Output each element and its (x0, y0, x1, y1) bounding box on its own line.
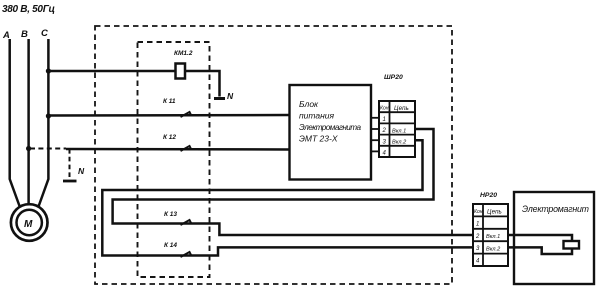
svg-text:N: N (227, 91, 234, 101)
svg-text:Вкл.2: Вкл.2 (392, 140, 407, 146)
svg-text:К 11: К 11 (163, 98, 176, 105)
wire: stub unit to connector pin 4 (371, 150, 379, 152)
svg-text:питания: питания (299, 111, 335, 121)
svg-text:КМ1.2: КМ1.2 (174, 50, 193, 57)
node: junction dot on phase B (neutral/K12 row) (26, 146, 31, 151)
svg-text:ШР20: ШР20 (384, 74, 403, 81)
wire: coil KM1.2 to terminal N (185, 71, 220, 97)
contact K12 (contactor contact) (163, 134, 191, 151)
contact K11 (contactor contact) (163, 98, 191, 117)
electromagnet unit box (514, 192, 594, 284)
wire: phase C down to motor (39, 39, 49, 206)
svg-text:К 14: К 14 (164, 242, 177, 249)
svg-text:380 В, 50Гц: 380 В, 50Гц (2, 4, 55, 15)
wire: phase C to coil KM1.2 (48, 70, 175, 73)
coil KM1.2 (contactor coil) (174, 50, 193, 79)
wire: circuit Vkl.2 from ShR20 pin3 through contact K14 to NR20 pin3 (102, 140, 473, 255)
svg-text:2: 2 (475, 234, 480, 240)
wire: electromagnet coil loop (508, 235, 572, 254)
enclosure: outer dashed boundary (cabinet) (95, 26, 452, 284)
motor M (asynchronous motor) (11, 204, 48, 241)
node: junction dot on phase C (row KM1 coil) (46, 68, 51, 73)
wire: dashed tap from phase B junction (30, 148, 66, 150)
wire: stub unit to connector pin 2 (371, 128, 379, 130)
wire: phase B down to motor (27, 39, 30, 205)
svg-text:К 12: К 12 (163, 134, 176, 141)
svg-text:Цепь: Цепь (487, 209, 502, 216)
wire: neutral drop (dashed) to terminal N near motor (69, 149, 71, 178)
svg-text:Кон: Кон (474, 209, 483, 215)
node: junction dot on phase C (row K11) (46, 113, 51, 118)
svg-text:В: В (21, 29, 28, 40)
svg-text:К 13: К 13 (164, 211, 177, 218)
svg-text:1: 1 (476, 221, 479, 227)
contact K14 (contactor contact) (164, 242, 191, 257)
wire: stub unit to connector pin 1 (371, 117, 379, 119)
svg-text:Вкл.1: Вкл.1 (486, 234, 500, 240)
svg-text:Электромагнит: Электромагнит (522, 204, 589, 214)
svg-text:Блок: Блок (299, 99, 319, 109)
svg-text:НР20: НР20 (480, 192, 497, 199)
svg-text:1: 1 (383, 117, 386, 123)
wire: stub unit to connector pin 3 (371, 139, 379, 141)
connector NR20 (electromagnet connector) (473, 192, 508, 266)
svg-text:ЭМТ 23-Х: ЭМТ 23-Х (299, 134, 338, 144)
svg-text:Вкл.1: Вкл.1 (392, 129, 406, 135)
wire: phase A down to motor (10, 39, 20, 206)
svg-text:Цепь: Цепь (394, 105, 409, 112)
wire: phase B through contact K12 to power unit pin (66, 148, 290, 151)
svg-text:Кон: Кон (380, 106, 389, 112)
svg-text:М: М (24, 219, 33, 230)
enclosure: inner dashed boundary (contactor KM1 unit) (138, 42, 210, 277)
inductor L1: electromagnet coil element (564, 241, 580, 249)
svg-text:2: 2 (382, 128, 387, 134)
op-amp U1: power supply unit (Блок питания ЭМТ 23-Х) (290, 85, 372, 180)
connector ShR20 (output connector of power unit) (379, 74, 415, 157)
terminal N (neutral, near motor) (63, 166, 85, 181)
wire: phase C through contact K11 to power unit pin (48, 114, 289, 117)
svg-text:N: N (78, 166, 85, 176)
terminal N (neutral, top) (214, 91, 234, 101)
svg-text:С: С (41, 28, 48, 39)
svg-text:Электромагнита: Электромагнита (299, 123, 361, 132)
svg-text:Вкл.2: Вкл.2 (486, 247, 501, 253)
contact K13 (contactor contact) (164, 211, 191, 225)
wire: circuit Vkl.1 from ShR20 pin2 through contact K13 to NR20 pin2 (113, 129, 473, 235)
